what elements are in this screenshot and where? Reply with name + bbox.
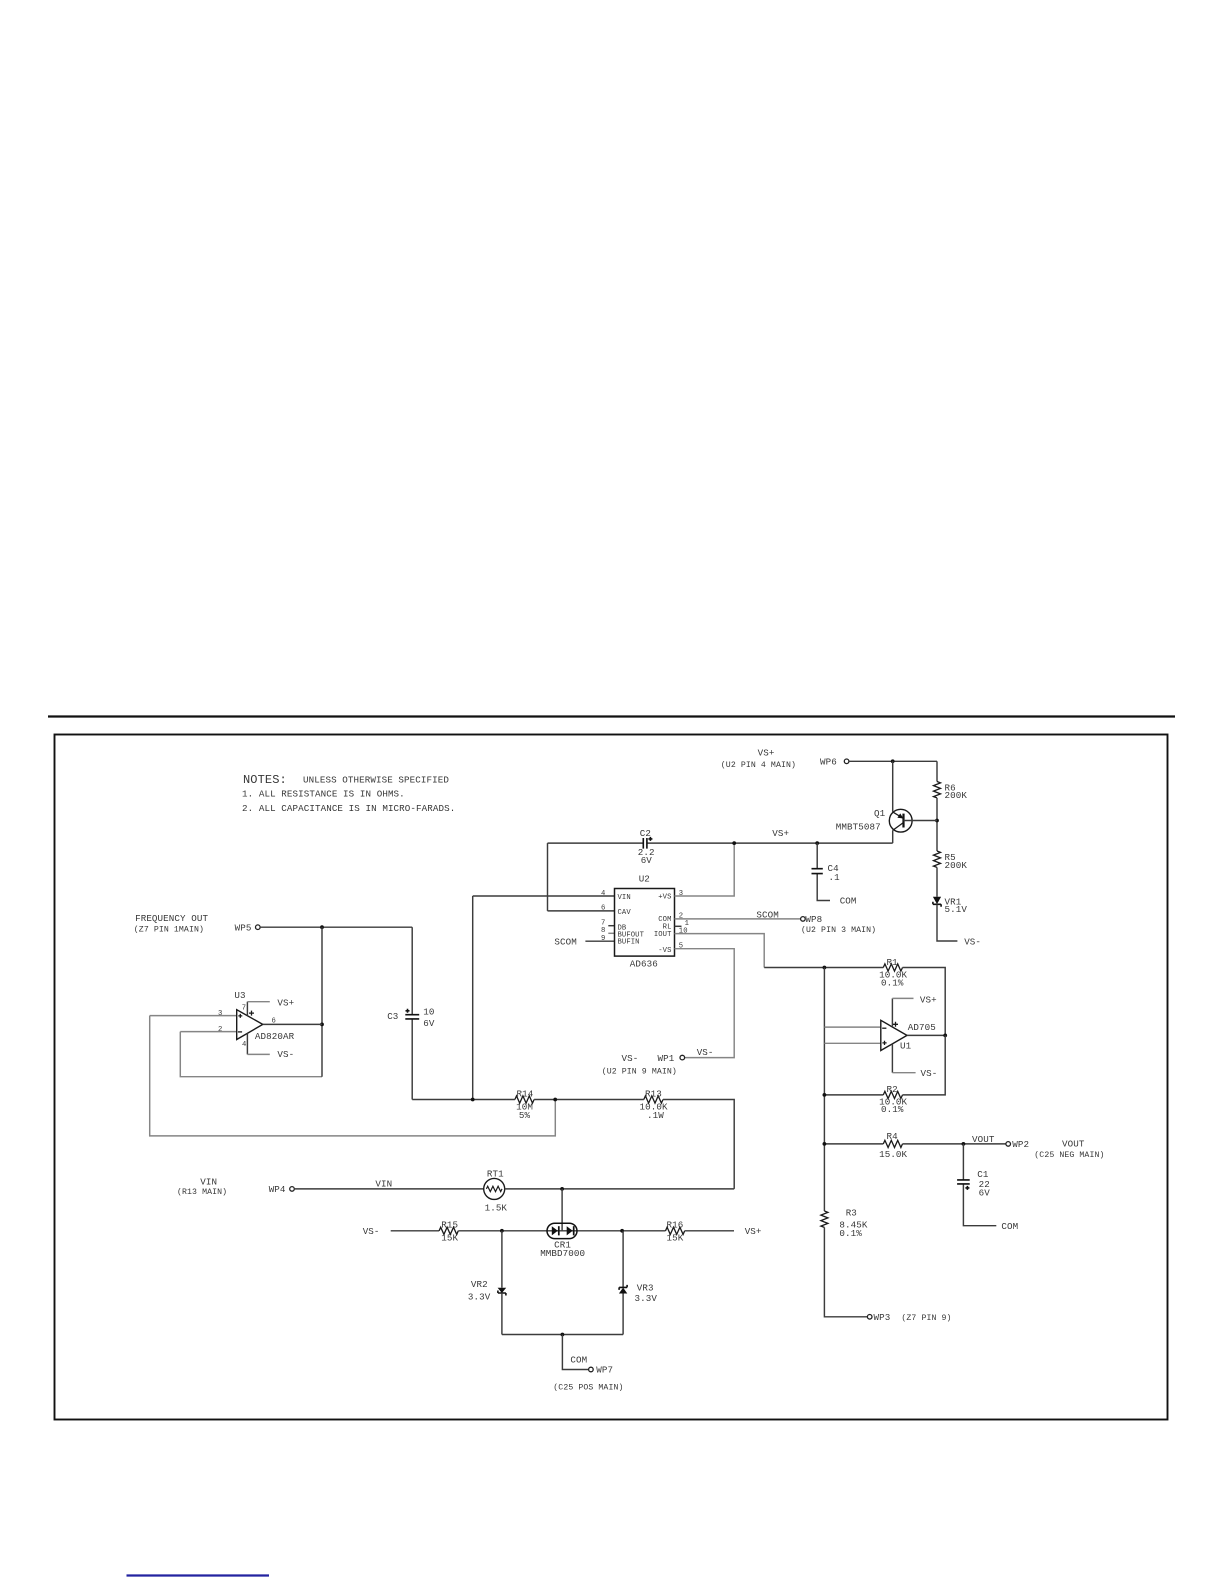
svg-text:6: 6 bbox=[272, 1018, 276, 1026]
svg-text:RL: RL bbox=[663, 923, 672, 931]
svg-text:(C25 NEG MAIN): (C25 NEG MAIN) bbox=[1034, 1150, 1104, 1160]
svg-text:WP5: WP5 bbox=[235, 922, 252, 933]
svg-text:U2: U2 bbox=[639, 874, 650, 885]
svg-text:VIN: VIN bbox=[200, 1177, 217, 1188]
svg-text:10: 10 bbox=[423, 1006, 434, 1017]
svg-text:(U2 PIN 3 MAIN): (U2 PIN 3 MAIN) bbox=[801, 925, 876, 935]
svg-text:5.1V: 5.1V bbox=[945, 904, 968, 915]
svg-text:MMBT5087: MMBT5087 bbox=[836, 821, 881, 832]
svg-text:VOUT: VOUT bbox=[972, 1134, 995, 1145]
svg-text:WP1: WP1 bbox=[658, 1053, 675, 1064]
svg-text:VS+: VS+ bbox=[277, 998, 294, 1009]
svg-text:VS-: VS- bbox=[363, 1226, 380, 1237]
svg-text:R2: R2 bbox=[887, 1084, 898, 1095]
svg-text:VR3: VR3 bbox=[637, 1282, 654, 1293]
svg-text:3: 3 bbox=[218, 1010, 222, 1018]
svg-text:U3: U3 bbox=[234, 990, 245, 1001]
svg-text:.1W: .1W bbox=[647, 1110, 664, 1121]
svg-text:COM: COM bbox=[840, 896, 857, 907]
svg-text:+VS: +VS bbox=[658, 894, 671, 902]
svg-text:IOUT: IOUT bbox=[654, 931, 672, 939]
svg-text:U1: U1 bbox=[900, 1041, 912, 1052]
svg-text:C2: C2 bbox=[640, 828, 651, 839]
svg-text:0.1%: 0.1% bbox=[839, 1228, 862, 1239]
svg-text:-VS: -VS bbox=[658, 947, 671, 955]
svg-text:AD636: AD636 bbox=[630, 959, 658, 970]
svg-text:2. ALL CAPACITANCE IS IN MICRO: 2. ALL CAPACITANCE IS IN MICRO-FARADS. bbox=[242, 803, 455, 814]
svg-text:7: 7 bbox=[242, 1005, 246, 1013]
svg-text:VS-: VS- bbox=[964, 937, 981, 948]
svg-text:VIN: VIN bbox=[618, 894, 631, 902]
svg-text:5%: 5% bbox=[519, 1110, 531, 1121]
svg-text:WP3: WP3 bbox=[874, 1312, 891, 1323]
svg-text:SCOM: SCOM bbox=[554, 936, 576, 947]
svg-text:WP2: WP2 bbox=[1012, 1139, 1029, 1150]
svg-text:CAV: CAV bbox=[618, 909, 632, 917]
svg-text:BUFIN: BUFIN bbox=[618, 939, 640, 947]
svg-text:R16: R16 bbox=[667, 1220, 684, 1231]
svg-text:VS-: VS- bbox=[697, 1047, 714, 1058]
svg-text:VS-: VS- bbox=[622, 1053, 639, 1064]
svg-text:4: 4 bbox=[601, 890, 605, 898]
svg-text:VS+: VS+ bbox=[920, 995, 937, 1006]
svg-text:Q1: Q1 bbox=[874, 808, 886, 819]
svg-text:0.1%: 0.1% bbox=[881, 977, 904, 988]
svg-text:VS+: VS+ bbox=[772, 828, 789, 839]
svg-text:(U2 PIN 9 MAIN): (U2 PIN 9 MAIN) bbox=[602, 1067, 677, 1077]
svg-text:VS+: VS+ bbox=[758, 747, 775, 758]
svg-text:WP7: WP7 bbox=[596, 1365, 613, 1376]
svg-text:15K: 15K bbox=[441, 1233, 458, 1244]
svg-text:200K: 200K bbox=[945, 860, 968, 871]
svg-text:R3: R3 bbox=[846, 1207, 857, 1218]
svg-text:(Z7 PIN 1MAIN): (Z7 PIN 1MAIN) bbox=[134, 925, 204, 935]
svg-text:(Z7 PIN 9): (Z7 PIN 9) bbox=[901, 1313, 951, 1323]
svg-text:VS-: VS- bbox=[921, 1068, 938, 1079]
svg-text:15.0K: 15.0K bbox=[879, 1149, 907, 1160]
svg-text:6V: 6V bbox=[979, 1187, 991, 1198]
svg-text:COM: COM bbox=[1001, 1221, 1018, 1232]
svg-text:8: 8 bbox=[601, 927, 605, 935]
svg-text:VS+: VS+ bbox=[745, 1226, 762, 1237]
svg-text:VS-: VS- bbox=[277, 1049, 294, 1060]
svg-text:.1: .1 bbox=[829, 872, 841, 883]
svg-text:4: 4 bbox=[242, 1041, 246, 1049]
svg-text:R14: R14 bbox=[517, 1088, 534, 1099]
svg-text:(U2 PIN 4 MAIN): (U2 PIN 4 MAIN) bbox=[721, 760, 796, 770]
svg-text:6V: 6V bbox=[641, 855, 653, 866]
svg-text:200K: 200K bbox=[945, 790, 968, 801]
svg-text:9: 9 bbox=[601, 935, 605, 943]
svg-text:1.5K: 1.5K bbox=[485, 1202, 508, 1213]
svg-text:COM: COM bbox=[570, 1354, 587, 1365]
svg-text:AD705: AD705 bbox=[908, 1022, 936, 1033]
svg-text:15K: 15K bbox=[667, 1233, 684, 1244]
svg-text:3.3V: 3.3V bbox=[635, 1293, 658, 1304]
svg-text:NOTES:: NOTES: bbox=[243, 773, 287, 787]
svg-text:1. ALL RESISTANCE IS IN OHMS.: 1. ALL RESISTANCE IS IN OHMS. bbox=[242, 789, 405, 800]
svg-text:VIN: VIN bbox=[375, 1178, 392, 1189]
svg-text:FREQUENCY OUT: FREQUENCY OUT bbox=[135, 913, 208, 924]
svg-text:UNLESS OTHERWISE SPECIFIED: UNLESS OTHERWISE SPECIFIED bbox=[303, 775, 449, 786]
svg-text:R15: R15 bbox=[441, 1220, 458, 1231]
svg-text:RT1: RT1 bbox=[487, 1169, 504, 1180]
svg-text:C3: C3 bbox=[387, 1011, 398, 1022]
svg-text:(R13 MAIN): (R13 MAIN) bbox=[177, 1187, 227, 1197]
svg-text:2: 2 bbox=[218, 1026, 222, 1034]
svg-text:SCOM: SCOM bbox=[756, 910, 778, 921]
svg-text:R4: R4 bbox=[887, 1131, 899, 1142]
svg-text:R1: R1 bbox=[887, 957, 899, 968]
svg-text:AD820AR: AD820AR bbox=[255, 1031, 295, 1042]
svg-text:6V: 6V bbox=[423, 1018, 435, 1029]
svg-text:WP8: WP8 bbox=[805, 914, 822, 925]
svg-text:WP4: WP4 bbox=[269, 1184, 286, 1195]
svg-text:3.3V: 3.3V bbox=[468, 1292, 491, 1303]
svg-text:0.1%: 0.1% bbox=[881, 1104, 904, 1115]
svg-text:6: 6 bbox=[601, 905, 605, 913]
svg-text:R13: R13 bbox=[645, 1088, 662, 1099]
svg-text:WP6: WP6 bbox=[820, 757, 837, 768]
svg-text:VOUT: VOUT bbox=[1062, 1138, 1085, 1149]
svg-text:(C25 POS MAIN): (C25 POS MAIN) bbox=[553, 1382, 623, 1392]
svg-text:VR2: VR2 bbox=[471, 1279, 488, 1290]
svg-text:MMBD7000: MMBD7000 bbox=[540, 1248, 585, 1259]
